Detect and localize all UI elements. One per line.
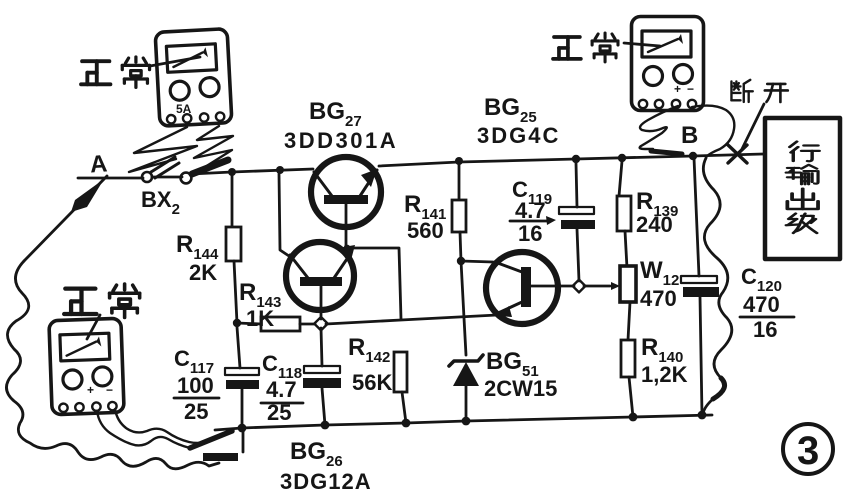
ground symbol (242, 429, 245, 452)
junction rail / BG51 (462, 417, 471, 426)
transistor BG26 (286, 242, 354, 310)
BX2 plug 2 (152, 176, 182, 179)
wire A to BX2 (78, 177, 143, 180)
junction rail / C117 / ground (238, 424, 247, 433)
svg-text:16: 16 (753, 317, 777, 342)
resistor R143 (233, 319, 241, 327)
junction bus / C119 (572, 155, 580, 163)
svg-text:3DD301A: 3DD301A (284, 128, 398, 153)
svg-text:2K: 2K (189, 260, 217, 285)
potentiometer W12 (620, 266, 636, 302)
svg-text:1K: 1K (246, 306, 274, 331)
resistor R141 (458, 165, 461, 200)
junction rail / R140 (629, 413, 638, 422)
svg-text:560: 560 (407, 218, 444, 243)
pointer line to M2 (624, 43, 660, 46)
svg-text:+: + (87, 383, 94, 397)
main bus wire right section (379, 154, 764, 166)
svg-text:3DG4C: 3DG4C (477, 123, 560, 148)
line output stage box (765, 118, 840, 259)
bottom ground rail wire (215, 415, 712, 430)
wire to R142 branch (347, 248, 401, 319)
wiper wire to W12 (584, 285, 610, 288)
svg-text:B: B (681, 122, 698, 149)
arrow down-left from node A (24, 176, 107, 261)
BX2 plug 1 (142, 172, 152, 182)
multimeter M3 bottom-left (49, 318, 124, 414)
label duankai 断开 (731, 80, 752, 102)
right torn-edge boundary (703, 158, 732, 414)
emitter rail wire y~318 (326, 315, 497, 324)
svg-text:470: 470 (743, 292, 780, 317)
junction diamond BG25 base (573, 280, 586, 293)
svg-text:2CW15: 2CW15 (484, 376, 557, 401)
svg-text:470: 470 (640, 286, 677, 311)
capacitor C120 (694, 158, 699, 276)
resistor R142 (394, 352, 407, 392)
junction bus / BG26 collector (276, 166, 284, 174)
junction rail / C120 (698, 411, 707, 420)
M1 lead right zigzag (194, 126, 233, 172)
resistor R144 (231, 176, 234, 227)
label zhengchang top-left (81, 57, 149, 87)
wire BG26 collector up to bus (279, 174, 289, 256)
node B junction bus / C120 (689, 152, 697, 160)
junction rail / C118 (321, 421, 330, 430)
junction bus / R139 (618, 154, 626, 162)
junction BG27 base / BG26 emitter (344, 245, 351, 252)
main bus wire left section (191, 169, 313, 174)
junction bus / R144 (228, 168, 236, 176)
svg-text:1,2K: 1,2K (641, 362, 688, 387)
resistor R140 (621, 340, 635, 377)
multimeter M1 top-left (155, 29, 232, 127)
svg-text:3DG12A: 3DG12A (280, 469, 372, 494)
pointer line to M3 (87, 315, 100, 339)
transistor BG27 (311, 157, 381, 227)
junction R141 bottom / BG25 collector (457, 257, 465, 265)
svg-text:240: 240 (636, 212, 673, 237)
M2 lead right curve (692, 106, 734, 157)
pointer line from duankai (742, 104, 764, 149)
junction rail / R142 (402, 419, 411, 428)
M3 leads (97, 411, 190, 448)
svg-text:+: + (674, 82, 681, 96)
svg-text:100: 100 (177, 373, 214, 398)
svg-text:5A: 5A (176, 102, 192, 116)
junction diamond BG26 base (314, 317, 327, 330)
M1 lead left zigzag (129, 127, 197, 172)
svg-text:4.7: 4.7 (266, 377, 297, 402)
zener BG51 (449, 355, 483, 366)
capacitor C117 (237, 327, 240, 368)
svg-text:16: 16 (518, 221, 542, 246)
capacitor C118 (321, 328, 322, 366)
X break mark (728, 145, 747, 163)
junction bus / R141 (455, 157, 463, 165)
label zhengchang bottom-left (64, 284, 139, 318)
capacitor C119 (576, 163, 577, 207)
resistor R139 (619, 161, 622, 196)
label zhengchang top-right (553, 33, 618, 62)
multimeter M2 top-right (632, 17, 704, 111)
svg-text:56K: 56K (352, 370, 392, 395)
transistor BG25 (486, 252, 558, 324)
M2 lead left zigzag (640, 106, 678, 149)
svg-text:25: 25 (267, 400, 291, 425)
left torn-edge boundary (6, 261, 219, 469)
svg-text:A: A (89, 150, 108, 178)
svg-text:−: − (687, 82, 694, 96)
pointer line to M1 (150, 57, 200, 66)
svg-text:3: 3 (797, 429, 819, 473)
circled 3 (783, 424, 833, 474)
svg-text:25: 25 (184, 399, 208, 424)
svg-text:4.7: 4.7 (515, 198, 546, 223)
svg-text:−: − (106, 383, 113, 397)
